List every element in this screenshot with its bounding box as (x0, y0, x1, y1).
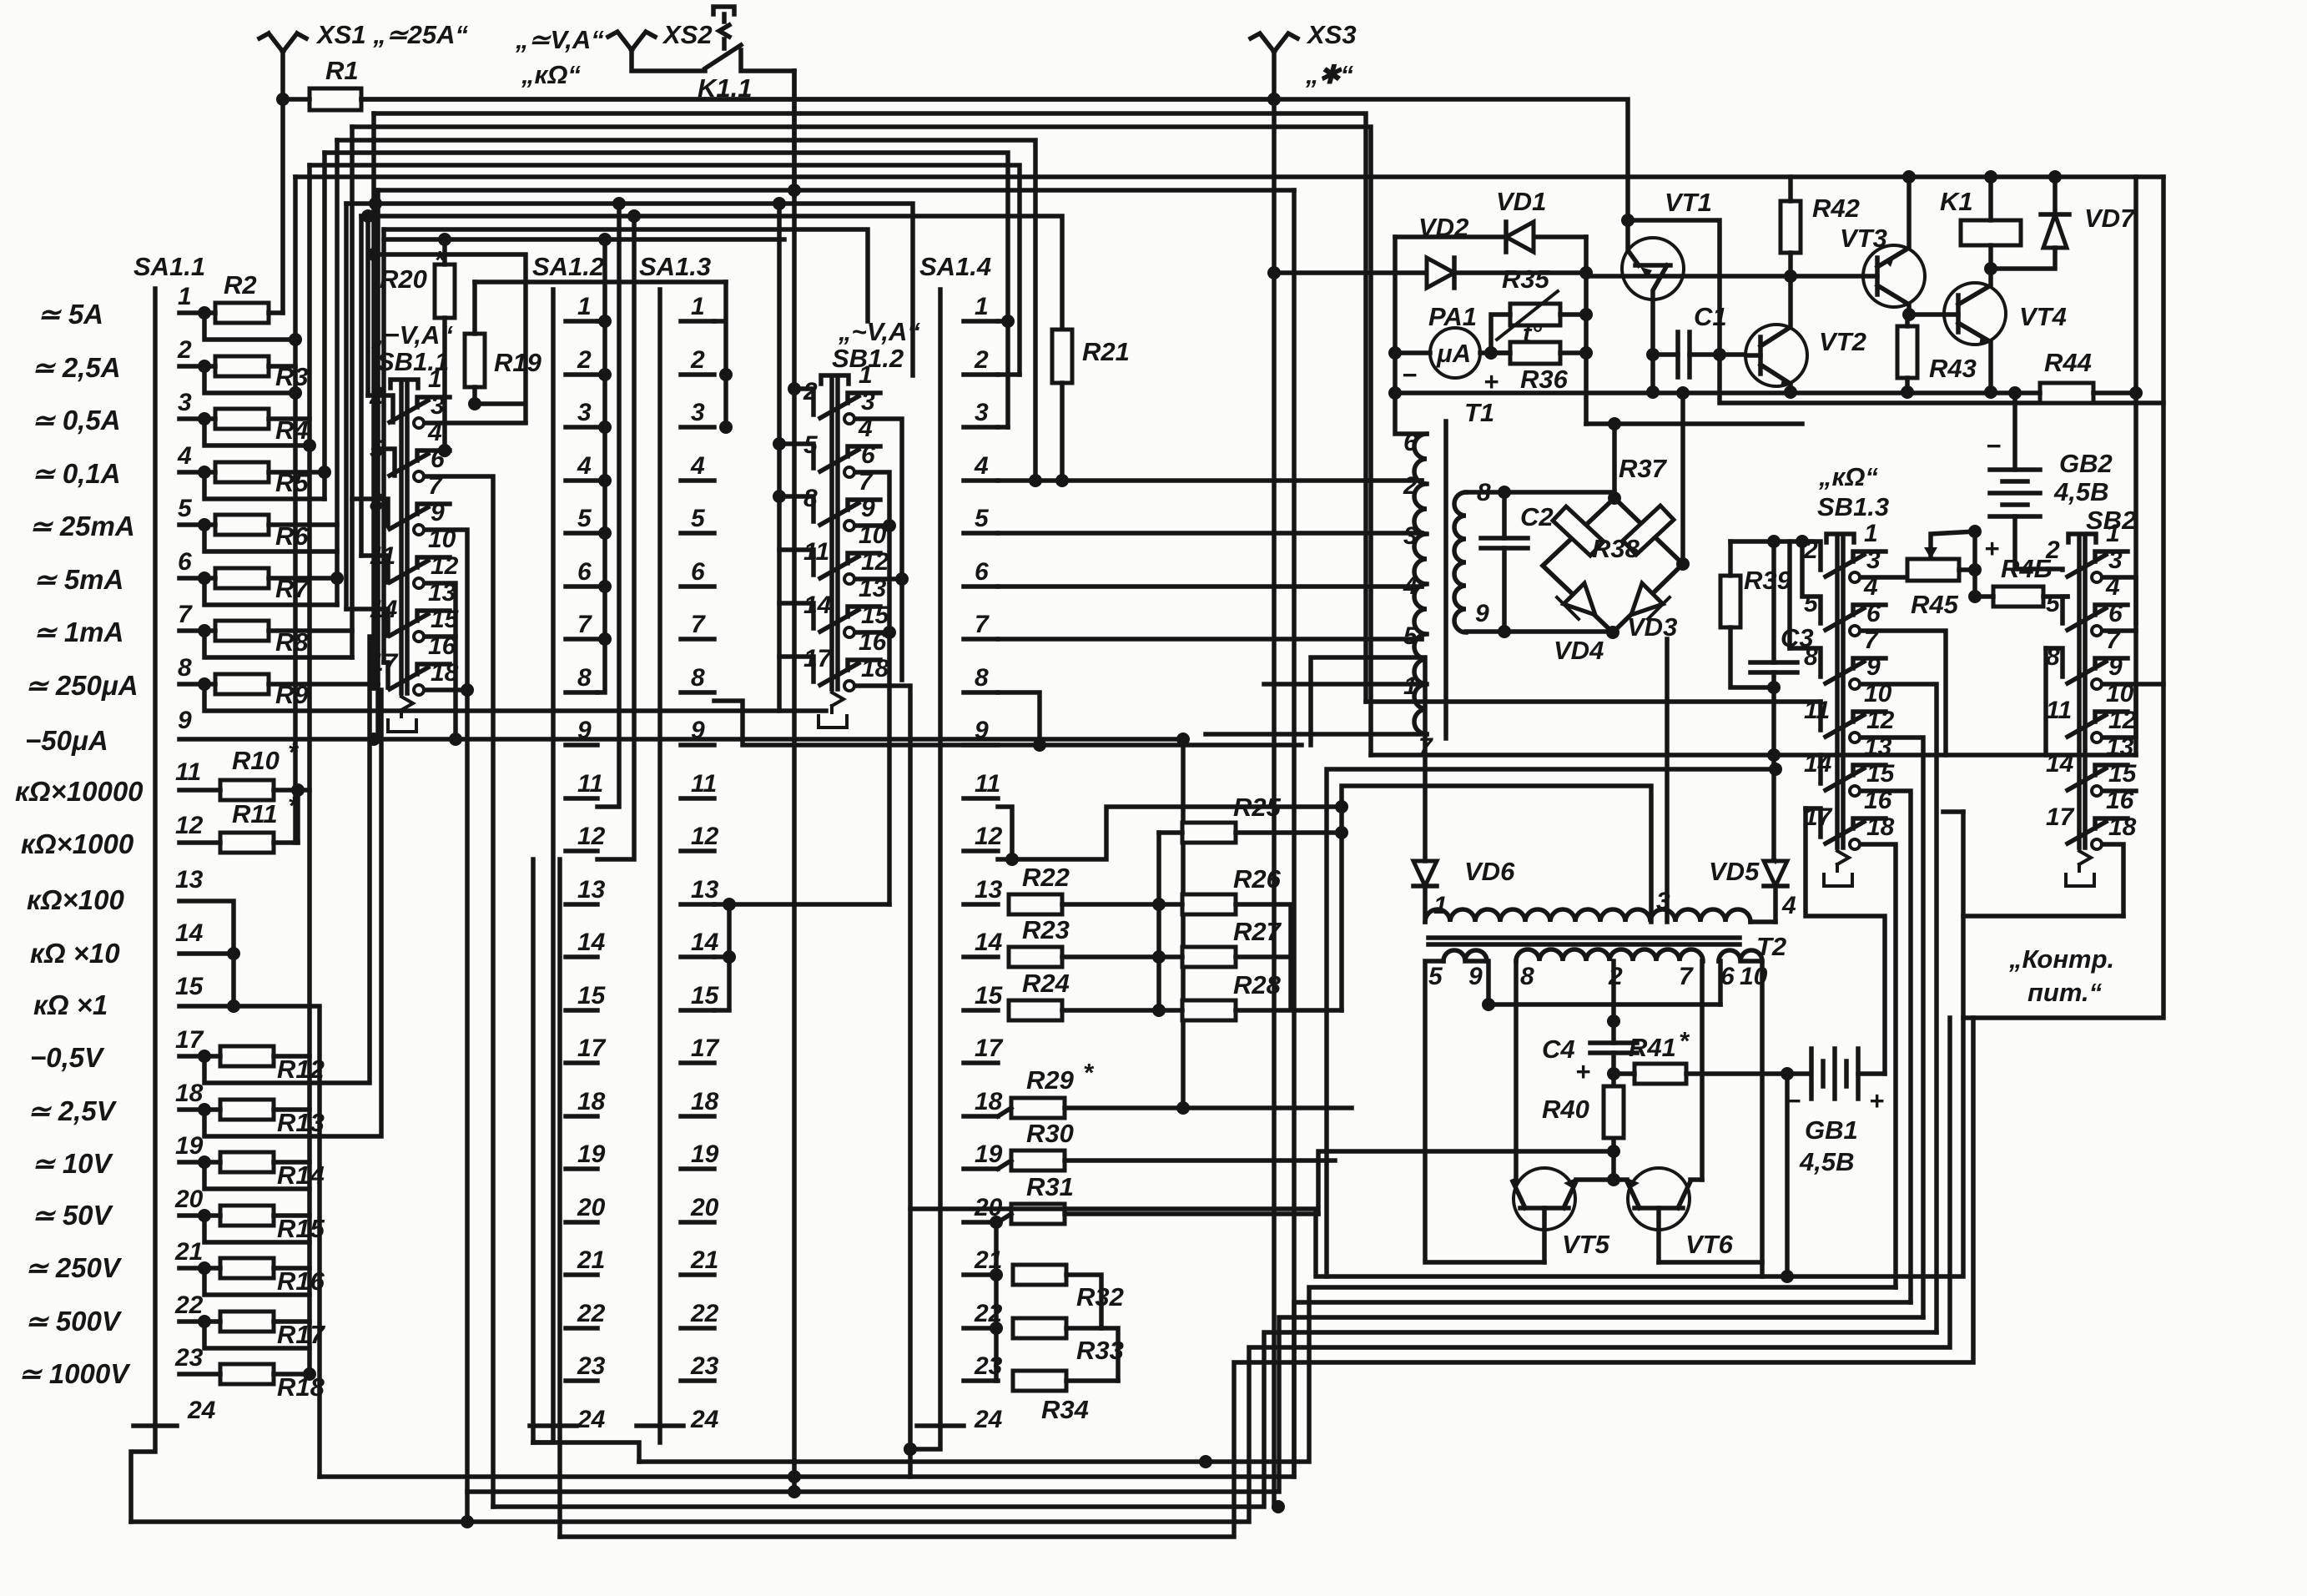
transistor VT6 (1628, 1168, 1690, 1230)
svg-text:R34: R34 (1041, 1395, 1089, 1424)
battery GB2 (2012, 393, 2017, 470)
wire SA1.3 pin24 elbow (657, 1426, 662, 1442)
wire bottom bus L1752 (639, 1287, 1896, 1462)
svg-text:„✱“: „✱“ (1305, 60, 1353, 89)
svg-text:5: 5 (691, 505, 706, 532)
svg-text:11: 11 (2046, 697, 2072, 724)
svg-text:7: 7 (1679, 963, 1694, 990)
wire R15 rung (179, 1216, 310, 1242)
svg-text:5: 5 (975, 505, 990, 532)
svg-text:14: 14 (1804, 750, 1832, 778)
svg-text:19: 19 (577, 1140, 606, 1168)
wire tap9 to bridge bottom (1466, 629, 1613, 634)
wire bottom bus L1788 (467, 1317, 1923, 1492)
wire bridge right to top rail (1680, 393, 1685, 564)
wire SB2 g2 left R46 (2063, 597, 2068, 623)
svg-text:5: 5 (1403, 622, 1418, 650)
wire R41 leads (1614, 1071, 1807, 1076)
svg-text:VT6: VT6 (1685, 1230, 1734, 1259)
svg-text:5: 5 (577, 505, 592, 532)
resistor R31 (1011, 1204, 1065, 1224)
wire SB1.1 g1 circle out (426, 420, 526, 425)
wire R25 chain vertical (1156, 833, 1161, 1010)
transistor VT5 (1514, 1168, 1575, 1230)
transformer T2 core (1428, 938, 1740, 944)
wire SB1.3 g6 circle out (1862, 844, 1896, 1287)
wire PA1 block right edge (1584, 237, 1589, 424)
wire SB1.3 g1 left (1802, 541, 1821, 570)
wire SB1.2 g4 left (779, 550, 813, 575)
resistor R32 (1013, 1265, 1066, 1285)
svg-text:8: 8 (178, 654, 192, 682)
wire SB2 g3 left (2046, 648, 2063, 677)
svg-text:5: 5 (2046, 590, 2061, 617)
resistor R27 (1182, 947, 1236, 967)
svg-text:1: 1 (1864, 520, 1878, 547)
wire top bus y259 to R21 (361, 216, 1062, 330)
wire vertical bus x441 (365, 216, 370, 395)
svg-text:SA1.2: SA1.2 (532, 252, 604, 281)
svg-text:SA1.1: SA1.1 (133, 252, 205, 281)
svg-text:8: 8 (975, 664, 989, 692)
wire SB1.1 g4 left (361, 556, 388, 582)
svg-text:≃ 5A: ≃ 5A (38, 299, 103, 330)
wire SA1.4 contact6 line to T1 (998, 584, 1422, 589)
transformer T1 core (1443, 421, 1448, 738)
svg-text:6: 6 (1866, 600, 1881, 627)
resistor R22 (1009, 894, 1062, 914)
wire R26 R27 R28 leads (1159, 904, 1342, 1010)
svg-text:19: 19 (691, 1140, 719, 1168)
button SB1.2 contacts (820, 393, 880, 685)
svg-text:VD3: VD3 (1627, 612, 1677, 642)
svg-text:9: 9 (975, 717, 989, 744)
wire vertical bus x433 (359, 216, 364, 556)
resistor R17 (220, 1312, 274, 1332)
button SB1.3 plunger (1826, 534, 1854, 848)
capacitor C4 (1590, 1043, 1637, 1053)
svg-text:„кΩ“: „кΩ“ (1818, 462, 1878, 491)
resistor R12 (220, 1046, 274, 1066)
transformer T1 primary winding (1414, 434, 1427, 734)
svg-text:19: 19 (975, 1140, 1003, 1168)
resistor R33 (1013, 1318, 1066, 1338)
wire top bus y183 (325, 153, 1008, 427)
svg-text:2: 2 (577, 346, 592, 374)
wire vertical bus x450 (373, 204, 378, 449)
wire top bus y275 (384, 229, 868, 321)
svg-text:18: 18 (2108, 813, 2137, 841)
svg-text:R29: R29 (1026, 1065, 1075, 1095)
diode VD4 (1564, 583, 1595, 615)
svg-text:13: 13 (975, 876, 1003, 904)
svg-text:„кΩ“: „кΩ“ (521, 60, 581, 89)
svg-text:4: 4 (690, 452, 705, 480)
svg-text:4: 4 (974, 452, 989, 480)
resistor R15 (220, 1206, 274, 1226)
svg-text:C2: C2 (1520, 502, 1554, 531)
wire vertical bus x404 (335, 140, 340, 605)
svg-text:3: 3 (975, 399, 989, 426)
wire R18 rung (179, 1372, 310, 1377)
wire SB1.1 g3 circle out (426, 530, 467, 1522)
wire R5 rung (179, 472, 325, 499)
svg-text:3: 3 (2108, 546, 2123, 574)
diode VD3 (1631, 583, 1663, 615)
resistor R11 (220, 833, 274, 853)
capacitor C3 (1750, 662, 1797, 672)
svg-text:12: 12 (175, 812, 204, 839)
wire SB1.2 g6 circle out (857, 686, 910, 1477)
svg-text:R22: R22 (1022, 863, 1070, 892)
wire SB1.1 g2 left (375, 449, 395, 476)
svg-text:14: 14 (175, 919, 204, 947)
wire pins 13-15 kOhm chain (179, 901, 320, 1477)
svg-text:кΩ ×1: кΩ ×1 (33, 989, 108, 1020)
svg-text:R23: R23 (1022, 915, 1070, 944)
svg-text:R44: R44 (2044, 348, 2092, 377)
svg-text:R4Б: R4Б (2001, 554, 2053, 583)
wire T2 w9 lead (1465, 961, 1720, 1004)
wire R12 rung (179, 637, 370, 1083)
svg-text:12: 12 (2108, 707, 2137, 734)
wire SA1.3 contact 8 out (714, 701, 1302, 745)
wire PA1 leads (1395, 350, 1510, 355)
wire bottom bus L1824 (131, 1018, 1950, 1522)
svg-text:18: 18 (691, 1088, 719, 1115)
wire SB1.2 g1 circle out (857, 419, 902, 680)
resistor R30 (1011, 1150, 1065, 1171)
svg-text:„Контр.: „Контр. (2008, 944, 2114, 974)
svg-text:15: 15 (975, 982, 1004, 1009)
button SB2 plunger (2068, 534, 2096, 848)
wire vertical bus x453 (375, 190, 380, 739)
svg-text:R35: R35 (1502, 264, 1550, 294)
svg-text:21: 21 (690, 1246, 718, 1274)
svg-text:15: 15 (2108, 760, 2138, 788)
svg-text:R45: R45 (1911, 590, 1959, 619)
wire R2 rung (179, 313, 295, 340)
svg-text:11: 11 (975, 770, 1000, 798)
svg-text:1: 1 (2106, 520, 2120, 547)
svg-text:11: 11 (691, 770, 717, 798)
connector XS1 jack symbol (259, 33, 306, 52)
svg-text:C4: C4 (1542, 1035, 1575, 1064)
wire top bus y198 (310, 165, 1020, 375)
svg-text:VT3: VT3 (1840, 224, 1887, 253)
wire SB1.2 left rail x934 (777, 204, 782, 711)
wire SB1.2 g3 left (779, 496, 813, 521)
wire top bus y287 (384, 237, 784, 242)
wire top bus y212 long border (295, 174, 2163, 179)
wire SB1.2 g4 circle out (857, 576, 902, 582)
svg-text:R38: R38 (1592, 534, 1640, 563)
svg-text:≃ 2,5A: ≃ 2,5A (32, 352, 121, 383)
svg-text:6: 6 (691, 558, 705, 586)
svg-text:R1: R1 (325, 56, 359, 85)
wire R3 rung (179, 366, 295, 393)
svg-text:≃ 1mA: ≃ 1mA (33, 617, 123, 647)
transistor VT3 (1863, 245, 1925, 307)
wire SA1.3 right rail (714, 282, 726, 427)
wire SA1.4 contact1-3 link (998, 321, 1008, 427)
svg-text:8: 8 (577, 664, 592, 692)
svg-text:24: 24 (187, 1397, 216, 1424)
wire bottom bus L1770 (320, 1302, 1911, 1477)
svg-text:R15: R15 (277, 1214, 325, 1243)
svg-text:−: − (1402, 360, 1417, 390)
svg-text:R13: R13 (277, 1108, 325, 1137)
button SB1.1 contacts (390, 397, 450, 689)
wire SB1.2 g3 circle out (857, 523, 889, 528)
rectifier bridge R38 arm (1623, 506, 1674, 555)
svg-text:23: 23 (577, 1352, 606, 1380)
resistor R3 (215, 356, 269, 376)
svg-text:кΩ ×10: кΩ ×10 (30, 938, 120, 969)
svg-text:2: 2 (974, 346, 989, 374)
svg-text:VD4: VD4 (1554, 636, 1604, 665)
svg-text:пит.“: пит.“ (2027, 978, 2103, 1007)
svg-text:„~V,A“: „~V,A“ (838, 317, 920, 346)
wire XS3 stem long (1272, 52, 1277, 1507)
svg-text:4: 4 (1781, 892, 1796, 919)
svg-text:7: 7 (975, 611, 990, 638)
wire oscillator left feed (910, 1018, 1963, 1276)
svg-text:19: 19 (175, 1132, 204, 1160)
svg-text:2: 2 (177, 336, 192, 364)
svg-text:кΩ×10000: кΩ×10000 (15, 776, 144, 807)
button SB1.1 return spring (388, 697, 416, 732)
svg-text:14: 14 (2046, 750, 2074, 778)
wire VT1-VT3 base line (1586, 274, 1864, 279)
svg-text:12: 12 (431, 552, 459, 580)
svg-text:≃ 5mA: ≃ 5mA (33, 564, 123, 595)
wire vertical bus x460 (381, 229, 386, 662)
svg-text:R24: R24 (1022, 969, 1070, 998)
svg-text:18: 18 (1866, 813, 1895, 841)
button SB2 return spring (2066, 851, 2094, 886)
potentiometer R45 (1907, 559, 1959, 581)
transistor VT2 (1745, 325, 1807, 386)
svg-text:3: 3 (577, 399, 592, 426)
wire SA1.2 right rail contacts 1-8 (597, 239, 605, 692)
wire Kontr box (1963, 177, 2163, 1018)
svg-text:1: 1 (691, 293, 705, 320)
svg-text:1: 1 (1433, 892, 1448, 919)
wire PA1 block bottom (1395, 390, 2015, 395)
wire SB1.3 g4 left (1818, 702, 1823, 730)
svg-text:GB1: GB1 (1805, 1115, 1858, 1145)
resistor R24 (1009, 1000, 1062, 1020)
svg-text:1: 1 (975, 293, 989, 320)
wire SB1.1 g3 left from ladder (352, 499, 388, 526)
svg-text:R42: R42 (1812, 194, 1860, 223)
svg-text:12: 12 (577, 823, 606, 850)
wire R19 leads (374, 254, 526, 422)
svg-text:3: 3 (1866, 546, 1881, 574)
wire top bus y168 (337, 140, 1035, 481)
svg-text:R20: R20 (380, 264, 427, 294)
wire T2 w10 lead (1659, 961, 1762, 1262)
wire T1 tap6 to PA1 (1395, 393, 1427, 434)
svg-text:12: 12 (975, 823, 1003, 850)
resistor R21 (1052, 330, 1072, 383)
resistor R2 (215, 303, 269, 323)
meter PA1 (1430, 328, 1480, 378)
resistor R7 (215, 568, 269, 588)
svg-text:R31: R31 (1026, 1172, 1074, 1201)
svg-text:22: 22 (174, 1291, 204, 1319)
connector XS2 jack symbol (608, 32, 655, 50)
svg-text:4: 4 (577, 452, 592, 480)
button SB1.3 contacts (1826, 551, 1886, 843)
svg-text:4: 4 (1403, 572, 1418, 600)
capacitor C2 (1481, 538, 1528, 548)
svg-text:6: 6 (975, 558, 989, 586)
svg-text:2: 2 (2045, 536, 2060, 564)
wire SA1.4 contact5 line to T1 (998, 531, 1422, 536)
wire net841 (1366, 699, 1821, 704)
wire SA1.4 contact11-12 (998, 807, 1012, 859)
transformer T2 winding 6-10 (1719, 950, 1762, 961)
svg-text:13: 13 (175, 866, 204, 894)
wire SB1.3 g4 circle out (1862, 738, 1923, 1317)
svg-text:R12: R12 (277, 1055, 325, 1084)
svg-text:5: 5 (1428, 963, 1443, 990)
wire R9 rung (179, 684, 826, 711)
svg-text:12: 12 (691, 823, 719, 850)
svg-text:≃ 1000V: ≃ 1000V (18, 1358, 131, 1389)
svg-text:R39: R39 (1744, 566, 1792, 595)
wire vertical bus x389 (322, 153, 327, 499)
wire R6 rung (179, 525, 337, 551)
wire R11 rung (179, 840, 298, 845)
wire R25 leads (1159, 830, 1342, 835)
wire SA1.4 contact8-9 step (998, 692, 1040, 745)
wire SB1.1 g2 contact4 (438, 444, 451, 457)
wire R16 rung (179, 1268, 310, 1295)
svg-text:≃ 25mA: ≃ 25mA (29, 511, 135, 541)
svg-text:14: 14 (691, 929, 719, 956)
svg-text:18: 18 (175, 1080, 204, 1107)
resistor R34 (1013, 1371, 1066, 1391)
svg-text:XS2: XS2 (662, 20, 713, 49)
wire SA1.4 pin24 elbow (910, 1426, 940, 1449)
wire SA1.2 pin24 elbow (533, 1426, 553, 1442)
svg-text:6: 6 (178, 548, 192, 576)
svg-text:20: 20 (174, 1186, 204, 1213)
wire SB1.2 g2 left (779, 444, 813, 468)
wire XS2 to K1.1 (632, 50, 705, 71)
svg-text:*: * (1083, 1058, 1095, 1087)
svg-text:15: 15 (1866, 760, 1896, 788)
wire SB1.3 g3 circle out (1862, 684, 1937, 1332)
wire SB1.3 g3 left (1790, 648, 1821, 677)
wire vertical x591 x639 x671 tails (533, 859, 560, 1537)
svg-text:R11: R11 (232, 799, 278, 828)
svg-text:R18: R18 (277, 1372, 325, 1402)
svg-text:≃ 2,5V: ≃ 2,5V (28, 1095, 118, 1126)
wire SB1.1 g2 circle out (426, 476, 493, 1507)
wire SB1.2 g2 circle out (857, 472, 889, 904)
wire oscillator bottom right (1760, 1262, 1765, 1276)
capacitor C1 (1678, 332, 1690, 377)
wire GB1 minus vertical (1785, 1074, 1790, 1276)
svg-text:6: 6 (861, 441, 875, 469)
wire K1.1 down bus (792, 71, 797, 195)
wire SB1.1 g1 left (368, 395, 393, 422)
transformer T2 winding 8-2-7 (1516, 949, 1703, 961)
wire R14 rung (179, 1162, 310, 1189)
svg-text:17: 17 (577, 1035, 607, 1062)
wire top bus y152 (352, 127, 1371, 755)
wire SB1.2 g1 left (794, 389, 813, 415)
wire R21 bottom (1060, 383, 1065, 481)
resistor R42 (1781, 201, 1801, 253)
transformer T1 secondary (1454, 492, 1466, 632)
switch SA1.3 contact stubs (637, 321, 714, 1426)
thermistor R35 (1510, 304, 1560, 325)
svg-text:−50μA: −50μA (25, 725, 108, 756)
diode VD7 (2043, 214, 2067, 248)
resistor R10 (220, 780, 274, 800)
wire SB1.3 g6 left (1806, 808, 1821, 837)
transformer T2 primary (1425, 909, 1750, 922)
svg-text:21: 21 (174, 1238, 203, 1266)
wire R36 leads (1491, 350, 1586, 355)
wire SB1.1 g4 circle out (426, 583, 456, 739)
svg-text:20: 20 (577, 1194, 606, 1221)
wire R8 rung (179, 631, 352, 657)
node R1-XS1 junction (276, 93, 290, 106)
switch SA1.2 contact stubs (530, 321, 597, 1426)
svg-text:PA1: PA1 (1428, 302, 1477, 331)
svg-text:VT4: VT4 (2019, 302, 2067, 331)
wire K1.1 vertical to bottom (792, 71, 797, 1492)
svg-text:R21: R21 (1082, 337, 1130, 366)
svg-text:1: 1 (859, 361, 873, 389)
svg-text:18: 18 (577, 1088, 606, 1115)
svg-text:12: 12 (1866, 707, 1895, 734)
svg-text:VD1: VD1 (1496, 187, 1546, 216)
wire pin 9 line (179, 739, 1183, 1108)
wire SB1.1 g6 left (384, 662, 388, 687)
svg-text:21: 21 (577, 1246, 605, 1274)
svg-text:2: 2 (690, 346, 705, 374)
wire contacts 20-23 chain (994, 1222, 999, 1381)
wire SB1.3 g2 left (1802, 541, 1821, 623)
svg-text:17: 17 (975, 1035, 1004, 1062)
wire GB2 plus to R45 wiper (1972, 531, 1977, 570)
wire top bus y119 to VT1 area (361, 99, 1628, 220)
svg-text:4,5B: 4,5B (1799, 1147, 1854, 1176)
wire SA1.2 rail x760 contact 12 (597, 216, 634, 859)
svg-text:+: + (1575, 1057, 1590, 1086)
svg-text:−: − (1986, 431, 2001, 461)
svg-text:4: 4 (177, 442, 192, 470)
wire SB1.1 g5 left (346, 609, 388, 636)
svg-text:R19: R19 (494, 348, 542, 377)
diode VD6 (1413, 861, 1437, 886)
svg-text:T1: T1 (1464, 398, 1494, 427)
svg-text:22: 22 (577, 1300, 606, 1327)
wire SA1.2 rail x742 contact 11 (597, 204, 619, 807)
resistor R44 (2040, 383, 2093, 403)
wire GB1 plus up (1858, 1071, 1885, 1076)
transistor VT1 (1622, 238, 1684, 300)
svg-text:9: 9 (1468, 963, 1483, 990)
svg-text:SB1.3: SB1.3 (1817, 492, 1889, 521)
